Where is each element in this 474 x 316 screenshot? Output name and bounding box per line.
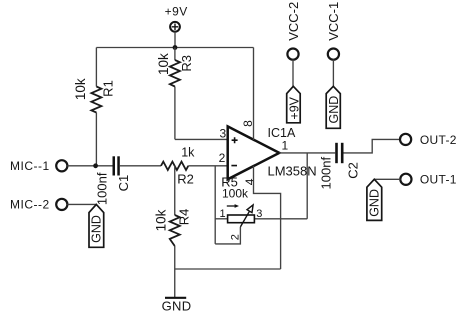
terminal VCC-2	[287, 49, 298, 60]
+9V supply tag at VCC-2	[287, 86, 301, 123]
svg-text:10k: 10k	[153, 209, 168, 231]
junction rail/R3	[173, 45, 178, 50]
svg-text:C1: C1	[116, 175, 131, 192]
wire R3 to op-amp pin 3	[175, 138, 228, 140]
svg-text:VCC-1: VCC-1	[326, 2, 341, 41]
svg-text:LM358N: LM358N	[268, 163, 317, 178]
svg-text:+9V: +9V	[165, 5, 188, 19]
svg-text:100k: 100k	[222, 186, 249, 200]
wire inverting node down	[214, 166, 216, 244]
power +9V supply symbol	[170, 22, 180, 48]
svg-text:R2: R2	[177, 171, 194, 186]
svg-text:4: 4	[243, 178, 257, 185]
svg-text:R1: R1	[100, 80, 115, 97]
wire pin 8 to rail	[253, 48, 255, 141]
wire feedback output down	[306, 153, 308, 219]
resistor R2	[161, 162, 188, 170]
svg-text:1: 1	[220, 208, 226, 220]
wire +9V rail	[96, 47, 253, 49]
svg-text:GND: GND	[327, 96, 341, 124]
terminal OUT-1	[400, 174, 411, 185]
potentiometer R5	[228, 205, 255, 227]
junction MIC-1/R1/C1	[93, 163, 98, 168]
wire C1 to R2	[120, 165, 161, 167]
wire C2 to OUT-2	[344, 139, 401, 153]
wire pin 4 to bottom rail	[254, 166, 281, 269]
op-amp U IC1A LM358N	[228, 126, 280, 179]
wire MIC-2 to ground tag	[67, 203, 96, 205]
wire op-amp output to C2	[279, 152, 335, 154]
ground tag at VCC-1	[326, 86, 340, 128]
terminal VCC-1	[328, 49, 339, 60]
ground symbol GND	[165, 297, 186, 299]
svg-text:GND: GND	[90, 215, 104, 243]
svg-text:2: 2	[219, 151, 226, 165]
terminal MIC--2	[56, 199, 67, 210]
svg-text:2: 2	[229, 234, 241, 240]
svg-text:10k: 10k	[156, 53, 171, 75]
wire pot wiper pin2 loop	[215, 227, 240, 244]
svg-text:R3: R3	[179, 55, 194, 72]
svg-text:OUT-1: OUT-1	[420, 173, 457, 187]
svg-text:C2: C2	[345, 162, 360, 179]
svg-text:100nf: 100nf	[94, 172, 109, 205]
svg-text:100nf: 100nf	[318, 157, 333, 190]
wire R2 to op-amp pin 2	[188, 165, 227, 167]
capacitor C1	[113, 156, 120, 175]
wire bottom rail	[175, 268, 281, 270]
svg-text:OUT-2: OUT-2	[420, 133, 457, 147]
svg-text:VCC-2: VCC-2	[286, 2, 301, 41]
wire pot pin3 to feedback	[254, 218, 307, 220]
wire VCC-1 to GND tag	[332, 60, 334, 87]
wire pot pin1	[215, 218, 227, 220]
svg-text:GND: GND	[162, 298, 192, 313]
resistor R3	[170, 48, 180, 140]
svg-text:+9V: +9V	[288, 96, 302, 119]
resistor R1	[91, 48, 101, 166]
wire OUT-1 to ground tag	[374, 178, 400, 180]
resistor R4	[170, 166, 180, 297]
capacitor C2	[335, 143, 343, 163]
svg-text:GND: GND	[368, 189, 382, 217]
svg-text:R4: R4	[176, 209, 191, 226]
wire VCC-2 to +9V tag	[292, 60, 294, 87]
svg-text:MIC--2: MIC--2	[10, 197, 50, 211]
wire MIC-1 to C1	[67, 165, 112, 167]
svg-text:3: 3	[256, 208, 262, 220]
ground tag at OUT-1	[367, 179, 382, 220]
svg-text:1: 1	[281, 139, 288, 153]
svg-text:1k: 1k	[181, 146, 195, 160]
R5 wiper direction arrow	[227, 204, 239, 208]
svg-text:MIC--1: MIC--1	[10, 159, 50, 173]
svg-text:3: 3	[219, 127, 226, 141]
ground tag at MIC-2	[89, 204, 104, 247]
terminal MIC--1	[56, 160, 67, 171]
terminal OUT-2	[400, 134, 411, 145]
svg-text:10k: 10k	[73, 78, 88, 100]
